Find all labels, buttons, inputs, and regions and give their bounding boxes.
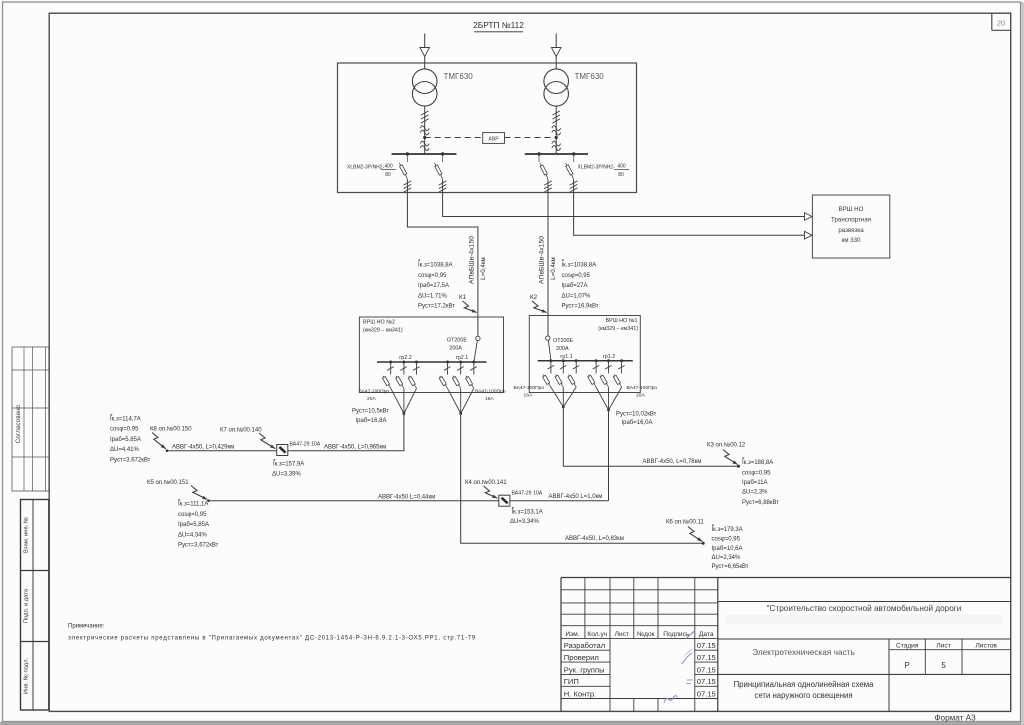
svg-text:L=0,4км: L=0,4км — [480, 257, 487, 280]
svg-text:К6 оп.№00.11: К6 оп.№00.11 — [666, 519, 704, 526]
svg-text:400: 400 — [384, 163, 393, 169]
svg-text:сети наружного освещения: сети наружного освещения — [754, 691, 852, 700]
svg-text:ВРШ НО №2: ВРШ НО №2 — [363, 320, 395, 326]
svg-text:XLBM2-3P/NH2-: XLBM2-3P/NH2- — [578, 164, 616, 170]
svg-text:Кол.уч: Кол.уч — [587, 631, 607, 638]
svg-text:ВА47-100Про: ВА47-100Про — [359, 389, 390, 395]
svg-text:(км329 – км341): (км329 – км341) — [598, 326, 638, 332]
sheet number box 20 — [991, 14, 993, 31]
wire K7 box to K8 — [167, 450, 277, 452]
svg-text:cosφ=0,95: cosφ=0,95 — [418, 273, 447, 279]
svg-text:Iк.з=114,7А: Iк.з=114,7А — [110, 416, 141, 422]
svg-text:20: 20 — [997, 19, 1005, 28]
break marks — [420, 126, 429, 131]
svg-text:80: 80 — [385, 172, 391, 178]
svg-text:АВВГ-4х50, L=0,965км: АВВГ-4х50, L=0,965км — [324, 444, 386, 450]
svg-text:Iраб=27А: Iраб=27А — [562, 283, 588, 289]
svg-text:Iраб=27,5А: Iраб=27,5А — [418, 283, 449, 289]
svg-text:АВВГ-4х50 L=0,44км: АВВГ-4х50 L=0,44км — [378, 494, 435, 500]
incoming overhead line arrow — [424, 34, 426, 70]
svg-text:ΔU=1,71%: ΔU=1,71% — [418, 293, 448, 299]
svg-text:электрические расчеты представ: электрические расчеты представлены в "Пр… — [68, 636, 476, 642]
svg-text:Руст=6,65кВт: Руст=6,65кВт — [712, 564, 749, 570]
svg-text:cosφ=0,95: cosφ=0,95 — [712, 536, 741, 542]
svg-text:"Строительство скоростной авто: "Строительство скоростной автомобильной … — [767, 604, 962, 613]
svg-text:Iраб=16,0А: Iраб=16,0А — [622, 420, 653, 426]
left margin approval table — [12, 347, 49, 491]
break marks — [420, 141, 429, 146]
svg-text:cosφ=0,95: cosφ=0,95 — [110, 427, 139, 433]
svg-text:ТМГ630: ТМГ630 — [575, 72, 605, 81]
svg-text:ВА47-100Про: ВА47-100Про — [627, 385, 658, 391]
svg-text:ΔU=3,34%: ΔU=3,34% — [510, 519, 540, 525]
break marks — [552, 126, 561, 131]
svg-text:16А: 16А — [485, 396, 494, 402]
svg-text:07.15: 07.15 — [697, 689, 716, 698]
incoming overhead line arrow — [555, 34, 557, 70]
wire transformer to bus — [424, 106, 426, 154]
svg-text:cosφ=0,95: cosφ=0,95 — [178, 512, 207, 518]
svg-text:гр2.1: гр2.1 — [456, 355, 468, 361]
title block right part rows — [718, 601, 1011, 603]
disconnector QS3 — [537, 152, 540, 155]
wire feeder2 to VRSh transport top — [443, 180, 805, 217]
svg-text:Iк.з=157,9А: Iк.з=157,9А — [273, 462, 304, 468]
signature scribbles — [686, 631, 695, 639]
svg-text:Iк.з=1038,8А: Iк.з=1038,8А — [562, 263, 597, 269]
svg-text:Проверил: Проверил — [564, 653, 599, 662]
svg-text:Формат А3: Формат А3 — [934, 714, 976, 723]
svg-text:Принципиальная однолинейная сх: Принципиальная однолинейная схема — [734, 680, 875, 689]
svg-text:L=0,4км: L=0,4км — [550, 257, 557, 280]
breaker box K4 ВА47-29 — [499, 495, 510, 506]
svg-text:2БРТП №112: 2БРТП №112 — [473, 20, 524, 30]
svg-text:ВА47-29 10А: ВА47-29 10А — [512, 491, 543, 497]
fuse QS3 — [544, 181, 552, 185]
svg-text:ΔU=4,41%: ΔU=4,41% — [110, 447, 140, 453]
break marks — [552, 141, 561, 146]
fuse QS1 — [404, 181, 412, 185]
svg-text:АВВГ-4х50, L=0,83км: АВВГ-4х50, L=0,83км — [565, 536, 624, 542]
svg-text:20А: 20А — [636, 393, 645, 399]
svg-text:Руст=3,672кВт: Руст=3,672кВт — [110, 458, 151, 464]
wire feeder4 to VRSh transport bottom — [574, 180, 805, 236]
transformer ТМГ630 — [412, 69, 437, 94]
wire K5 to K4 box — [209, 500, 499, 502]
svg-text:ВА47-29 10А: ВА47-29 10А — [290, 442, 321, 448]
svg-text:гр1.1: гр1.1 — [560, 354, 572, 360]
disconnector QS4 — [572, 152, 575, 155]
wire group1.1 to K3 — [563, 407, 738, 466]
svg-text:АВР: АВР — [488, 136, 499, 142]
wire group2.1 to K6 — [461, 414, 704, 544]
svg-text:Рук. группы: Рук. группы — [564, 665, 605, 674]
svg-text:К3 оп.№00.12: К3 оп.№00.12 — [707, 442, 746, 449]
svg-text:Изм.: Изм. — [565, 631, 579, 638]
svg-text:07.15: 07.15 — [697, 641, 716, 650]
svg-text:К2: К2 — [530, 294, 538, 301]
svg-text:км 330: км 330 — [841, 237, 861, 244]
fuse marks — [421, 111, 429, 115]
breaker group гр2.1 — [446, 361, 449, 364]
wire feeder1 to K1 riser — [407, 180, 478, 337]
svg-text:cosφ=0,95: cosφ=0,95 — [742, 471, 771, 477]
svg-text:Стадия: Стадия — [896, 643, 919, 650]
svg-text:К8 оп.№00.150: К8 оп.№00.150 — [150, 426, 192, 433]
svg-text:ОТ200Е: ОТ200Е — [447, 338, 467, 344]
node АВР tap — [423, 136, 426, 139]
svg-text:Лист: Лист — [936, 643, 950, 650]
svg-text:Iраб=16,8А: Iраб=16,8А — [356, 418, 387, 424]
svg-text:Р: Р — [905, 661, 910, 670]
svg-text:Инв. № подл.: Инв. № подл. — [24, 658, 30, 694]
svg-text:Листов: Листов — [975, 643, 997, 650]
svg-text:(км329 – км341): (км329 – км341) — [363, 328, 403, 334]
svg-text:Iк.з=153,1А: Iк.з=153,1А — [512, 510, 543, 516]
wire group2.2 to K7 box — [288, 414, 404, 451]
svg-text:К7 оп.№00.140: К7 оп.№00.140 — [220, 427, 262, 434]
breaker group гр1.1 — [549, 359, 552, 362]
switch QF ОТ200Е No1 — [546, 336, 550, 340]
svg-text:Руст=10,02кВт: Руст=10,02кВт — [616, 412, 657, 418]
transformer ТМГ630 — [544, 69, 569, 94]
svg-text:Руст=16,9кВт: Руст=16,9кВт — [562, 304, 599, 310]
svg-text:Взам. инв. №: Взам. инв. № — [24, 517, 30, 553]
svg-text:Iраб=11А: Iраб=11А — [742, 480, 768, 486]
svg-text:07.15: 07.15 — [697, 665, 716, 674]
svg-text:ΔU=1,07%: ΔU=1,07% — [562, 293, 592, 299]
wire K4 box to group1.2 riser — [510, 500, 609, 502]
svg-text:Iраб=5,85А: Iраб=5,85А — [110, 437, 141, 443]
svg-text:АПвБШв-4х150: АПвБШв-4х150 — [468, 236, 475, 284]
svg-text:Iраб=5,85А: Iраб=5,85А — [178, 522, 209, 528]
svg-text:ΔU=2,34%: ΔU=2,34% — [712, 555, 742, 561]
fuse QS4 — [570, 181, 578, 185]
svg-text:Руст=3,672кВт: Руст=3,672кВт — [178, 543, 219, 549]
svg-text:ГИП: ГИП — [564, 677, 579, 686]
svg-text:ВРШ НО: ВРШ НО — [839, 206, 864, 213]
svg-text:Руст=17,2кВт: Руст=17,2кВт — [418, 304, 455, 310]
node АВР tap — [555, 136, 558, 139]
svg-text:Подп. и дата: Подп. и дата — [24, 588, 30, 623]
svg-text:АВВГ-4х50, L=0,78км: АВВГ-4х50, L=0,78км — [643, 459, 702, 465]
svg-text:XLBM2-3P/NH2-: XLBM2-3P/NH2- — [347, 164, 385, 170]
svg-text:07.15: 07.15 — [697, 653, 716, 662]
bus right section — [525, 153, 588, 155]
svg-text:Примечание:: Примечание: — [68, 624, 105, 630]
svg-text:cosφ=0,95: cosφ=0,95 — [562, 273, 591, 279]
VRSh NO No2 box — [359, 317, 503, 393]
svg-text:ВА47-100Про: ВА47-100Про — [475, 389, 506, 395]
АВР dashed link — [425, 137, 483, 139]
svg-text:ТМГ630: ТМГ630 — [444, 72, 474, 81]
svg-text:5: 5 — [941, 661, 946, 670]
svg-text:ВА47-100Про: ВА47-100Про — [514, 385, 545, 391]
bus left section — [392, 153, 457, 155]
АВР box — [483, 133, 505, 144]
breaker group гр1.2 — [595, 359, 598, 362]
disconnector QS2 — [441, 152, 444, 155]
svg-text:Руст=10,5кВт: Руст=10,5кВт — [352, 409, 389, 415]
svg-text:16А: 16А — [524, 393, 533, 399]
svg-text:07.15: 07.15 — [697, 677, 716, 686]
svg-text:Разработал: Разработал — [564, 641, 605, 650]
breaker box K7 ВА47-29 — [277, 445, 288, 456]
title block — [561, 577, 1011, 579]
svg-text:К5 оп.№00.151: К5 оп.№00.151 — [147, 479, 189, 486]
svg-text:развязка: развязка — [838, 227, 864, 234]
svg-text:Лист: Лист — [615, 631, 629, 638]
svg-text:ΔU=3,39%: ΔU=3,39% — [272, 472, 302, 478]
svg-text:АПвБШв-4х150: АПвБШв-4х150 — [538, 236, 545, 284]
svg-text:20А: 20А — [367, 396, 376, 402]
svg-text:гр1.2: гр1.2 — [603, 354, 615, 360]
svg-text:ΔU=4,34%: ΔU=4,34% — [178, 532, 208, 538]
disconnector QS1 — [406, 152, 409, 155]
svg-text:Согласовано: Согласовано — [15, 404, 22, 443]
wire group1.2 riser down — [608, 410, 610, 501]
svg-text:Н. Контр.: Н. Контр. — [564, 689, 596, 698]
bus VRSh No2 — [377, 361, 487, 363]
svg-text:Дата: Дата — [699, 631, 714, 638]
svg-text:К4 оп.№00.141: К4 оп.№00.141 — [465, 479, 507, 486]
svg-text:гр2.2: гр2.2 — [399, 355, 411, 361]
left margin inventory block — [21, 500, 49, 711]
wire transformer to bus — [555, 106, 557, 154]
svg-text:400: 400 — [617, 163, 626, 169]
VRSh NO No1 box — [529, 316, 640, 393]
bus VRSh No1 — [538, 360, 633, 362]
fuse QS2 — [439, 181, 447, 185]
svg-text:200А: 200А — [556, 346, 569, 352]
svg-text:К1: К1 — [459, 294, 467, 301]
svg-text:ОТ200Е: ОТ200Е — [553, 338, 573, 344]
svg-text:Руст=6,88кВт: Руст=6,88кВт — [742, 500, 779, 506]
breaker group гр2.2 — [389, 361, 392, 364]
svg-text:АВВГ-4х50, L=0,429км: АВВГ-4х50, L=0,429км — [172, 444, 234, 450]
svg-text:200А: 200А — [449, 346, 462, 352]
svg-text:№док: №док — [637, 631, 655, 638]
RTP enclosure box — [338, 63, 637, 193]
svg-text:Iк.з=179,3А: Iк.з=179,3А — [712, 527, 743, 533]
wire feeder3 to K2 riser — [547, 180, 549, 336]
svg-text:Электротехническая часть: Электротехническая часть — [752, 647, 855, 657]
svg-text:Iраб=10,6А: Iраб=10,6А — [712, 546, 743, 552]
svg-text:Iк.з=111,1А: Iк.з=111,1А — [178, 502, 208, 508]
svg-text:Iк.з=188,8А: Iк.з=188,8А — [742, 460, 773, 466]
svg-text:Подпись: Подпись — [663, 631, 690, 638]
svg-text:80: 80 — [618, 172, 624, 178]
switch QF ОТ200Е No2 — [476, 336, 480, 340]
svg-text:ВРШ НО №1: ВРШ НО №1 — [606, 318, 638, 324]
svg-text:Транспортная: Транспортная — [831, 216, 871, 223]
svg-text:Iк.з=1038,8А: Iк.з=1038,8А — [418, 263, 453, 269]
fuse marks — [552, 111, 560, 115]
svg-text:ΔU=2,3%: ΔU=2,3% — [742, 489, 768, 495]
svg-text:АВВГ-4х50 L=1,0км: АВВГ-4х50 L=1,0км — [549, 494, 603, 500]
VRSh transport box — [812, 195, 889, 258]
